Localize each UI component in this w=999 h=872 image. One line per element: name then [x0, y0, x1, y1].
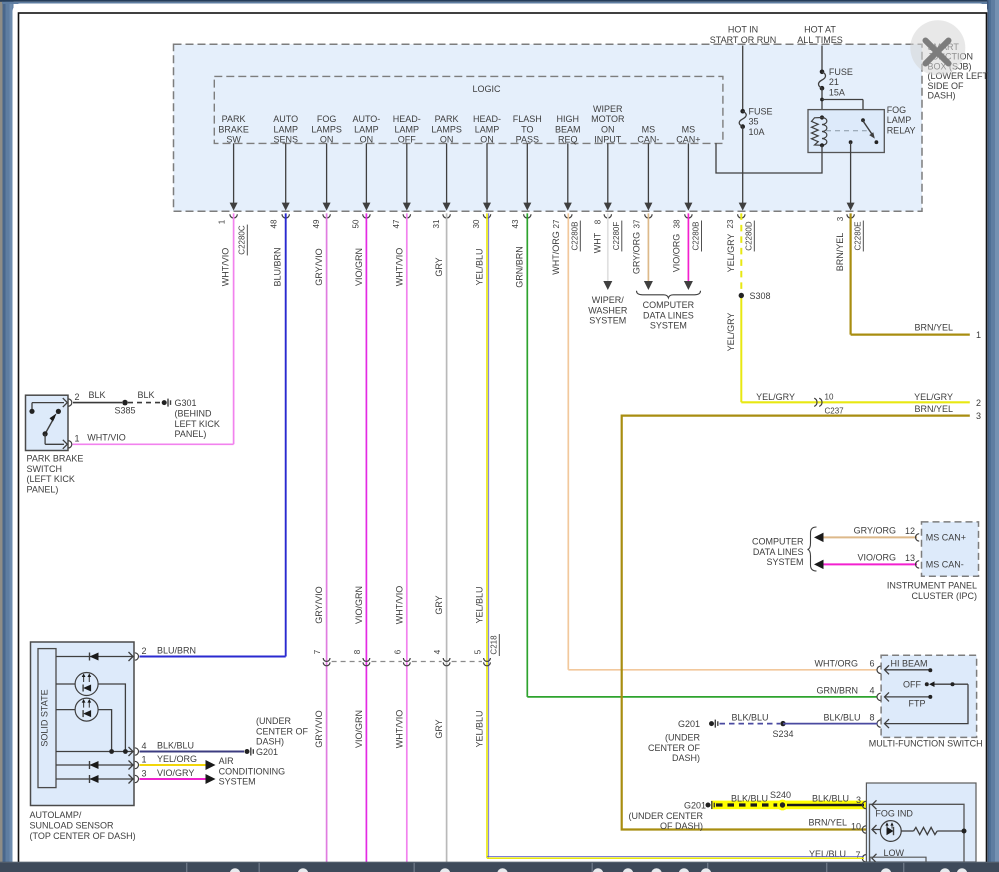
svg-text:YEL/GRY: YEL/GRY	[726, 313, 736, 352]
svg-text:MS: MS	[642, 124, 656, 134]
svg-text:GRY/VIO: GRY/VIO	[314, 710, 324, 747]
brace for computer data lines	[808, 527, 817, 571]
svg-text:C2280B: C2280B	[692, 222, 701, 251]
svg-text:VIO/GRN: VIO/GRN	[354, 248, 364, 286]
svg-text:3: 3	[142, 769, 147, 779]
connector arc at SJB bottom	[323, 214, 330, 218]
svg-text:WIPER/: WIPER/	[592, 295, 625, 305]
wire YEL/BLU blue tracer	[488, 213, 490, 858]
svg-text:SWITCH: SWITCH	[27, 464, 63, 474]
svg-text:GRY/VIO: GRY/VIO	[314, 248, 324, 285]
solid state inner box	[38, 649, 56, 788]
connector arc at SJB bottom	[230, 214, 237, 218]
connector arc at SJB bottom	[645, 214, 652, 218]
wire	[567, 143, 569, 203]
svg-text:LOW: LOW	[884, 848, 905, 858]
wire BLK/BLU from S234 to multi-function switch pin 8	[783, 723, 878, 725]
svg-text:3: 3	[836, 216, 845, 221]
switch FTP contact	[885, 692, 890, 701]
connector arc at SJB bottom	[524, 214, 531, 218]
wire	[607, 143, 609, 203]
wire	[233, 143, 235, 203]
smart junction box (SJB) outline	[174, 44, 923, 211]
wire relay output to SJB bottom	[850, 142, 852, 203]
wire lamp to resistor	[901, 830, 913, 832]
brace under data line wires	[637, 291, 701, 298]
svg-text:GRN/BRN: GRN/BRN	[514, 246, 524, 288]
svg-text:1: 1	[75, 434, 80, 444]
svg-text:G301: G301	[175, 398, 197, 408]
svg-text:FUSE: FUSE	[749, 106, 773, 116]
node	[56, 409, 61, 414]
svg-text:S234: S234	[772, 729, 793, 739]
LOGIC block outline	[214, 76, 723, 143]
sensor row pin 4	[56, 751, 134, 753]
svg-text:S385: S385	[114, 406, 135, 416]
svg-text:AUTOLAMP/: AUTOLAMP/	[30, 810, 82, 820]
ground G201 (under center of dash)	[245, 749, 250, 754]
node	[962, 829, 967, 834]
wire	[526, 143, 528, 203]
svg-text:C2280B: C2280B	[571, 222, 580, 251]
svg-text:(UNDER: (UNDER	[665, 733, 700, 743]
svg-text:DATA LINES: DATA LINES	[643, 310, 694, 320]
pin 2 connector arc	[68, 399, 72, 406]
svg-text:SYSTEM: SYSTEM	[766, 557, 803, 567]
connector C218 dashed joining line	[332, 661, 362, 663]
photodiode D1 light arrows	[83, 675, 85, 683]
svg-text:HEAD-: HEAD-	[473, 114, 501, 124]
connector arc at SJB bottom	[282, 214, 289, 218]
svg-text:BLK/BLU: BLK/BLU	[731, 794, 768, 804]
svg-text:HOT AT: HOT AT	[804, 25, 836, 35]
window frame top	[0, 0, 999, 2]
fuse F35 (FUSE 35 10A)	[740, 109, 745, 114]
fuse F21 (FUSE 21 15A)	[820, 70, 825, 75]
svg-text:MS: MS	[682, 124, 696, 134]
svg-text:GRY/ORG: GRY/ORG	[631, 232, 641, 274]
wire GRY/ORG from IPC pin 12 to data lines	[823, 536, 917, 538]
svg-text:PANEL): PANEL)	[175, 429, 207, 439]
svg-text:LEFT KICK: LEFT KICK	[175, 419, 220, 429]
svg-text:FUSE: FUSE	[829, 67, 853, 77]
wire resistor to frame	[937, 830, 964, 832]
connector C237	[814, 398, 817, 406]
ground G201 for S234	[709, 721, 714, 726]
pin 13 connector arc	[916, 561, 920, 568]
relay contact output node	[849, 140, 853, 144]
wire fuse 35 to SJB bottom	[742, 127, 744, 204]
svg-text:6: 6	[393, 649, 402, 654]
svg-text:MOTOR: MOTOR	[591, 114, 625, 124]
svg-text:BRN/YEL: BRN/YEL	[835, 233, 845, 272]
svg-text:WHT/VIO: WHT/VIO	[394, 248, 404, 287]
svg-text:WHT: WHT	[593, 232, 603, 253]
svg-text:DASH): DASH)	[672, 753, 700, 763]
wire BRN/YEL from page edge pin 3 to fog lamp indicator	[622, 416, 970, 830]
svg-text:ON: ON	[601, 124, 615, 134]
svg-text:RELAY: RELAY	[887, 125, 916, 135]
relay coil	[820, 115, 824, 119]
LED arrows	[886, 824, 888, 829]
svg-text:5: 5	[474, 649, 483, 654]
relay: fog lamp relay box	[808, 110, 884, 153]
svg-text:PARK: PARK	[222, 114, 246, 124]
svg-text:YEL/BLU: YEL/BLU	[475, 248, 485, 285]
wire fuse 21 to relay coil and switch branch	[821, 88, 823, 117]
arrow to air conditioning system	[206, 760, 216, 770]
svg-text:SYSTEM: SYSTEM	[589, 316, 626, 326]
svg-text:GRY: GRY	[434, 595, 444, 614]
svg-text:WHT/ORG: WHT/ORG	[815, 658, 859, 668]
svg-text:BRN/YEL: BRN/YEL	[808, 818, 847, 828]
wire into indicator lamp	[872, 829, 880, 831]
svg-text:AUTO-: AUTO-	[352, 114, 380, 124]
svg-text:INPUT: INPUT	[594, 135, 622, 145]
svg-text:BLK/BLU: BLK/BLU	[812, 794, 849, 804]
svg-text:AIR: AIR	[219, 756, 235, 766]
svg-text:S240: S240	[770, 790, 791, 800]
svg-text:ALL TIMES: ALL TIMES	[797, 35, 843, 45]
svg-text:C237: C237	[825, 406, 845, 415]
svg-text:BLK/BLU: BLK/BLU	[157, 741, 194, 751]
autolamp/sunload sensor box	[31, 642, 135, 806]
wire from photodiode D2	[98, 710, 112, 752]
splice S385	[122, 400, 128, 406]
pin 12 connector arc	[916, 534, 920, 541]
svg-text:OF DASH): OF DASH)	[660, 821, 703, 831]
connector arc at SJB bottom	[403, 214, 410, 218]
svg-text:HEAD-: HEAD-	[393, 114, 421, 124]
svg-text:ON: ON	[320, 135, 334, 145]
window frame right	[987, 0, 999, 872]
connector arc at SJB bottom	[363, 214, 370, 218]
svg-text:COMPUTER: COMPUTER	[752, 537, 804, 547]
svg-text:MS CAN-: MS CAN-	[926, 559, 964, 569]
svg-text:GRY/VIO: GRY/VIO	[314, 586, 324, 623]
svg-text:10: 10	[825, 392, 834, 401]
svg-text:SIDE OF: SIDE OF	[928, 81, 965, 91]
splice S308	[739, 293, 744, 298]
svg-text:G201: G201	[678, 719, 700, 729]
svg-text:REQ: REQ	[558, 135, 578, 145]
svg-text:LAMP: LAMP	[475, 124, 500, 134]
svg-text:DATA LINES: DATA LINES	[753, 547, 804, 557]
wire from HOT AT feed down to fuse 21	[821, 46, 823, 72]
wire BLK/BLU (dashed, highlighted) from G201 to splice S240	[716, 803, 779, 806]
relay contact (NC)	[875, 140, 879, 144]
svg-text:LAMP: LAMP	[354, 124, 379, 134]
switch common wire to pin 8	[885, 684, 969, 723]
wire VIO/ORG from IPC pin 13 to data lines	[823, 563, 917, 565]
arrow GRY/ORG to data lines	[644, 281, 653, 290]
wire YEL/BLU horizontal into fog pin 7	[487, 857, 864, 859]
arrow to air conditioning system	[206, 774, 216, 784]
pin 7 connector arc	[862, 855, 866, 862]
photodiode D2	[56, 709, 75, 711]
svg-text:FTP: FTP	[909, 699, 926, 709]
node	[109, 749, 114, 754]
svg-text:YEL/ORG: YEL/ORG	[157, 754, 197, 764]
sensor row pin 1: diode	[56, 764, 134, 766]
svg-text:YEL/BLU: YEL/BLU	[475, 586, 485, 623]
svg-text:WHT/VIO: WHT/VIO	[394, 710, 404, 749]
svg-text:(BEHIND: (BEHIND	[175, 409, 213, 419]
sensor row pin 2: diode	[56, 656, 134, 658]
connector arc at SJB bottom	[443, 214, 450, 218]
svg-text:43: 43	[511, 219, 520, 228]
close button	[910, 20, 965, 75]
park brake switch box	[26, 395, 69, 450]
svg-text:ON: ON	[480, 135, 494, 145]
svg-text:(TOP CENTER OF DASH): (TOP CENTER OF DASH)	[30, 831, 136, 841]
pin 1 connector arc	[68, 441, 72, 448]
arrow to wiper/washer system	[603, 281, 612, 290]
svg-text:ON: ON	[440, 135, 454, 145]
svg-text:BLK/BLU: BLK/BLU	[823, 713, 860, 723]
svg-text:BLK: BLK	[137, 390, 154, 400]
ground G301	[162, 400, 167, 405]
svg-text:BRN/YEL: BRN/YEL	[914, 323, 953, 333]
svg-text:G201: G201	[256, 747, 278, 757]
svg-text:DASH): DASH)	[256, 737, 284, 747]
svg-text:12: 12	[905, 526, 915, 536]
relay switch common	[861, 118, 865, 122]
pin 4 connector arc	[877, 693, 881, 700]
svg-text:S308: S308	[750, 291, 771, 301]
svg-text:PARK BRAKE: PARK BRAKE	[27, 454, 84, 464]
svg-text:HOT IN: HOT IN	[728, 25, 758, 35]
svg-text:4: 4	[142, 741, 147, 751]
svg-text:1: 1	[142, 755, 147, 765]
wire	[365, 143, 367, 203]
svg-text:38: 38	[672, 219, 681, 228]
svg-text:YEL/BLU: YEL/BLU	[809, 849, 846, 859]
wire relay coil return to LOGIC	[716, 143, 822, 173]
svg-text:TO: TO	[521, 124, 533, 134]
svg-text:VIO/GRN: VIO/GRN	[354, 710, 364, 748]
svg-text:GRN/BRN: GRN/BRN	[816, 685, 858, 695]
switch arm	[45, 417, 54, 434]
svg-text:BRAKE: BRAKE	[218, 124, 249, 134]
svg-text:BLU/BRN: BLU/BRN	[157, 646, 196, 656]
svg-text:WHT/VIO: WHT/VIO	[87, 433, 126, 443]
wire	[285, 143, 287, 203]
svg-text:3: 3	[976, 411, 981, 421]
resistor	[914, 827, 938, 834]
svg-text:C2280C: C2280C	[238, 225, 247, 255]
svg-text:PARK: PARK	[435, 114, 459, 124]
svg-text:C2280F: C2280F	[612, 222, 621, 251]
connector arc at SJB bottom	[847, 214, 854, 218]
photodiode D2 light arrows	[83, 700, 85, 708]
svg-text:8: 8	[353, 649, 362, 654]
svg-text:FOG IND: FOG IND	[875, 808, 913, 818]
svg-text:MULTI-FUNCTION SWITCH: MULTI-FUNCTION SWITCH	[869, 739, 983, 749]
svg-text:7: 7	[313, 649, 322, 654]
svg-text:SW: SW	[226, 135, 241, 145]
svg-text:8: 8	[594, 219, 603, 224]
svg-text:30: 30	[472, 219, 481, 228]
svg-text:SUNLOAD SENSOR: SUNLOAD SENSOR	[30, 821, 115, 831]
svg-text:2: 2	[75, 392, 80, 402]
svg-text:YEL/GRY: YEL/GRY	[914, 392, 953, 402]
pin 6 connector arc	[877, 666, 881, 673]
svg-text:C218: C218	[490, 635, 499, 655]
svg-text:CLUSTER (IPC): CLUSTER (IPC)	[911, 591, 977, 601]
svg-text:SYSTEM: SYSTEM	[650, 321, 687, 331]
wire YEL/ORG from sensor pin 1 to A/C system	[140, 764, 207, 766]
svg-text:WASHER: WASHER	[588, 305, 628, 315]
svg-text:G201: G201	[684, 801, 706, 811]
svg-text:FOG: FOG	[317, 114, 337, 124]
connector arc at SJB bottom	[738, 214, 745, 218]
connector arc at SJB bottom	[483, 214, 490, 218]
node	[29, 409, 34, 414]
svg-text:CENTER OF: CENTER OF	[648, 743, 701, 753]
svg-text:21: 21	[829, 77, 839, 87]
svg-text:BLU/BRN: BLU/BRN	[273, 247, 283, 286]
svg-text:CAN-: CAN-	[637, 135, 659, 145]
svg-text:37: 37	[632, 219, 641, 228]
wire YEL/GRY from S308 to C237 and page edge	[740, 296, 742, 403]
splice S240 (highlighted)	[777, 800, 788, 811]
svg-text:3: 3	[856, 795, 861, 805]
svg-text:GRY/ORG: GRY/ORG	[854, 525, 896, 535]
svg-text:35: 35	[749, 117, 759, 127]
svg-text:LAMP: LAMP	[273, 124, 298, 134]
svg-text:SYSTEM: SYSTEM	[219, 777, 256, 787]
svg-text:INSTRUMENT PANEL: INSTRUMENT PANEL	[887, 581, 977, 591]
svg-text:WIPER: WIPER	[593, 104, 623, 114]
wire	[326, 143, 328, 203]
svg-text:YEL/GRY: YEL/GRY	[726, 234, 736, 273]
svg-text:LAMP: LAMP	[395, 124, 420, 134]
fog ind inner frame	[870, 804, 965, 862]
wire BLK from park brake switch pin 2 to splice S385	[73, 402, 122, 404]
svg-text:49: 49	[312, 219, 321, 228]
svg-text:LAMPS: LAMPS	[311, 124, 342, 134]
indicator lamp (LED)	[880, 821, 901, 842]
svg-text:FOG: FOG	[887, 105, 907, 115]
fog indicator box	[866, 783, 976, 862]
svg-text:10A: 10A	[749, 127, 765, 137]
svg-text:CONDITIONING: CONDITIONING	[219, 766, 286, 776]
svg-text:50: 50	[352, 219, 361, 228]
svg-text:VIO/GRY: VIO/GRY	[157, 768, 194, 778]
svg-text:LOGIC: LOGIC	[472, 84, 501, 94]
svg-text:47: 47	[392, 219, 401, 228]
svg-text:10: 10	[851, 821, 861, 831]
park brake switch internal bottom wire	[44, 434, 46, 444]
multi-function switch box	[881, 655, 977, 737]
relay mechanical link (dashed)	[826, 130, 867, 132]
svg-text:HIGH: HIGH	[557, 114, 580, 124]
svg-text:BEAM: BEAM	[555, 124, 581, 134]
svg-text:AUTO: AUTO	[273, 114, 298, 124]
svg-text:13: 13	[905, 553, 915, 563]
splice S234	[780, 721, 785, 726]
svg-text:15A: 15A	[829, 87, 845, 97]
svg-text:MS CAN+: MS CAN+	[926, 532, 966, 542]
svg-text:4: 4	[433, 649, 442, 654]
wire	[647, 143, 649, 203]
wire	[486, 143, 488, 203]
svg-text:DASH): DASH)	[928, 91, 956, 101]
svg-text:48: 48	[270, 219, 279, 228]
svg-text:VIO/ORG: VIO/ORG	[857, 552, 896, 562]
wire from HOT IN feed down to fuse 35	[742, 46, 744, 112]
svg-text:LAMPS: LAMPS	[431, 124, 462, 134]
wire VIO/GRY from sensor pin 3 to A/C system	[140, 778, 207, 780]
svg-text:2: 2	[976, 398, 981, 408]
relay switch arm	[863, 120, 873, 134]
arrow VIO/ORG to data lines	[684, 281, 693, 290]
svg-text:GRY: GRY	[434, 719, 444, 738]
pin 3 connector arc	[862, 801, 866, 808]
svg-text:OFF: OFF	[398, 135, 416, 145]
svg-text:C2280E: C2280E	[854, 222, 863, 251]
svg-text:GRY: GRY	[434, 257, 444, 276]
node: branch to relay switch	[820, 98, 824, 102]
svg-text:8: 8	[869, 713, 874, 723]
svg-text:ON: ON	[360, 135, 374, 145]
svg-text:(UNDER CENTER: (UNDER CENTER	[628, 811, 703, 821]
sensor pin arcs	[135, 653, 139, 660]
photodiode D1	[56, 683, 75, 685]
svg-text:OFF: OFF	[903, 680, 921, 690]
svg-text:HI BEAM: HI BEAM	[890, 658, 927, 668]
svg-text:CAN+: CAN+	[676, 135, 700, 145]
svg-text:VIO/GRN: VIO/GRN	[354, 586, 364, 624]
highlighted wire band (yellow)	[711, 801, 866, 810]
wire BLK/BLU (highlighted) from S240 to fog indicator pin 3	[787, 804, 864, 807]
low beam sub box	[870, 857, 926, 862]
wire BLK/BLU from sensor pin 4 to ground G201	[140, 751, 245, 753]
svg-text:4: 4	[869, 686, 874, 696]
svg-text:FLASH: FLASH	[513, 114, 542, 124]
svg-text:WHT/ORG: WHT/ORG	[551, 231, 561, 275]
svg-text:VIO/ORG: VIO/ORG	[671, 234, 681, 273]
svg-text:YEL/GRY: YEL/GRY	[756, 392, 795, 402]
pin 8 connector arc	[877, 720, 881, 727]
switch HI BEAM contact	[885, 665, 890, 674]
wire from photodiode D1	[98, 684, 125, 752]
connector arc at SJB bottom	[604, 214, 611, 218]
taskbar	[0, 862, 999, 872]
svg-text:PASS: PASS	[516, 135, 539, 145]
svg-text:SOLID STATE: SOLID STATE	[40, 689, 50, 746]
svg-text:SENS: SENS	[273, 135, 298, 145]
svg-text:YEL/BLU: YEL/BLU	[475, 710, 485, 747]
svg-text:31: 31	[432, 219, 441, 228]
instrument panel cluster (IPC) box	[922, 522, 979, 576]
svg-text:PANEL): PANEL)	[27, 484, 59, 494]
svg-text:(UNDER: (UNDER	[256, 716, 291, 726]
node	[123, 749, 128, 754]
svg-text:BLK/BLU: BLK/BLU	[731, 713, 768, 723]
svg-text:23: 23	[726, 219, 735, 228]
ground G201 for S240	[706, 803, 711, 808]
window frame left	[0, 0, 3, 872]
connector arc at SJB bottom	[565, 214, 572, 218]
svg-text:C2280D: C2280D	[745, 221, 754, 251]
svg-text:2: 2	[142, 646, 147, 656]
pin 10 connector arc	[862, 826, 866, 833]
svg-text:1: 1	[976, 330, 981, 340]
svg-text:COMPUTER: COMPUTER	[643, 300, 695, 310]
svg-text:WHT/VIO: WHT/VIO	[394, 586, 404, 625]
